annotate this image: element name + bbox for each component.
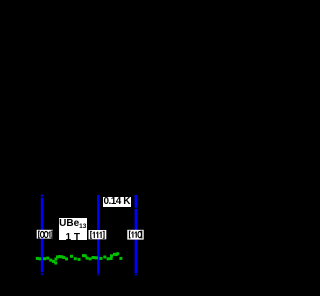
label UBe13 1 T [59, 218, 87, 241]
dashed line [111] [97, 195, 99, 275]
label [110] [127, 230, 143, 240]
data points green squares [36, 252, 123, 264]
label [001] [37, 230, 53, 239]
label 0.14 K [103, 197, 131, 208]
dashed line [001] [41, 195, 43, 276]
dashed line [110] [135, 195, 137, 276]
data plot svg [0, 0, 229, 296]
label [111] [89, 230, 107, 239]
